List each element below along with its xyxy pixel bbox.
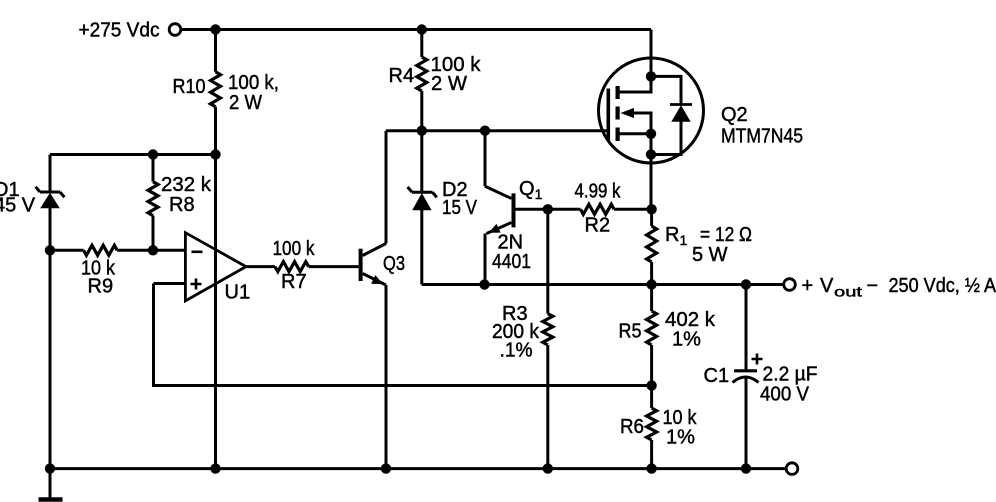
node: Q2 source internal upper	[646, 129, 656, 139]
svg-text:4401: 4401	[492, 251, 531, 273]
svg-text:C1: C1	[704, 365, 730, 387]
svg-text:45 V: 45 V	[0, 195, 36, 217]
svg-text:+275 Vdc: +275 Vdc	[79, 20, 160, 42]
node: R5 / R6 / feedback junction	[646, 380, 656, 390]
svg-text:out: out	[834, 284, 862, 300]
wire: Q2 drain lead	[650, 30, 653, 93]
wire: long vertical from R10 node down to ground rail	[214, 155, 217, 469]
svg-text:U1: U1	[225, 281, 251, 303]
MOSFET Q2 body connection with arrow	[621, 108, 652, 155]
resistor R6	[647, 386, 657, 469]
op-amp U1 minus sign	[192, 251, 203, 254]
svg-text:10 k: 10 k	[663, 407, 698, 429]
ground symbol	[39, 469, 63, 500]
wire: op-amp output to R7	[246, 265, 275, 268]
svg-text:.1%: .1%	[500, 339, 533, 361]
resistor R8	[148, 155, 158, 251]
wire: Q3 collector up to gate line	[385, 131, 388, 244]
node: R4 bottom / D2 junction	[417, 126, 427, 136]
node: R2 / R1 junction	[646, 204, 656, 214]
svg-text:5 W: 5 W	[692, 244, 728, 266]
svg-text:+: +	[802, 275, 814, 297]
resistor R9	[50, 245, 185, 255]
wire: D1 anode down to ground	[49, 250, 52, 469]
svg-text:−: −	[867, 275, 879, 297]
wire: output line from D2 to output terminal	[422, 283, 784, 286]
node: D1 / R9 junction	[45, 245, 55, 255]
svg-text:1%: 1%	[672, 329, 701, 351]
resistor R10	[211, 30, 221, 155]
node: rail / R4 junction	[417, 24, 427, 34]
MOSFET Q2 channel segment top	[616, 86, 620, 99]
svg-text:Q2: Q2	[721, 104, 748, 126]
node: C1 top junction	[741, 279, 751, 289]
wire: Q1 emitter down to output line	[484, 234, 487, 285]
node: Q2 drain internal	[646, 71, 656, 81]
resistor R1	[647, 209, 657, 284]
svg-text:232 k: 232 k	[161, 174, 212, 196]
node: Q1 base / R2 / R3 junction	[543, 204, 553, 214]
node: R8 top junction	[148, 149, 158, 159]
MOSFET Q2 channel segment bottom	[616, 128, 620, 142]
svg-text:250 Vdc, ½ A: 250 Vdc, ½ A	[889, 275, 996, 297]
wire: Q3 emitter down to ground rail	[385, 285, 388, 469]
node: Q1 emitter / output junction	[479, 279, 489, 289]
svg-text:Q1: Q1	[519, 178, 543, 202]
svg-text:2.2 µF: 2.2 µF	[763, 363, 818, 385]
wire: top +275V rail	[182, 28, 652, 31]
node: Q1 collector junction	[480, 126, 490, 136]
wire: upper-left horizontal (D1 top to R10 line)	[50, 153, 216, 156]
svg-text:100 k,: 100 k,	[228, 72, 279, 94]
node: ground rail / R10 line	[210, 463, 220, 473]
capacitor C1	[733, 285, 759, 469]
wire: bottom ground rail	[50, 467, 786, 470]
svg-text:MTM7N45: MTM7N45	[721, 125, 803, 147]
input terminal +275 Vdc	[169, 24, 181, 36]
svg-text:= 12 Ω: = 12 Ω	[700, 224, 752, 246]
wire: non-inverting input stub	[154, 282, 186, 285]
wire: Q2 source lead	[650, 155, 653, 210]
svg-text:R5: R5	[619, 321, 642, 343]
zener diode D1	[36, 155, 65, 251]
resistor R4	[417, 30, 427, 131]
wire: Q1 collector up to gate line	[484, 131, 487, 187]
node: Q2 source internal lower	[646, 149, 656, 159]
svg-text:R1: R1	[665, 224, 687, 248]
resistor R7	[275, 262, 359, 272]
node: ground rail / R3	[543, 463, 553, 473]
svg-text:R10: R10	[173, 76, 206, 98]
node: R10 bottom junction	[210, 149, 220, 159]
svg-text:Q3: Q3	[383, 253, 405, 275]
op-amp U1 plus sign	[191, 279, 202, 290]
label C1 polarity plus	[752, 354, 763, 365]
wire: Q1 base to R2	[516, 208, 548, 211]
svg-text:R4: R4	[389, 65, 415, 87]
svg-text:R8: R8	[169, 194, 195, 216]
svg-text:R7: R7	[281, 271, 307, 293]
MOSFET Q2 channel segment middle	[616, 107, 620, 120]
node: ground rail / C1	[741, 463, 751, 473]
svg-text:R2: R2	[585, 215, 611, 237]
svg-text:1%: 1%	[666, 427, 695, 449]
MOSFET Q2 source internal connection	[620, 132, 652, 135]
node: R8 bottom / inverting input junction	[148, 245, 158, 255]
svg-text:2 W: 2 W	[431, 73, 467, 95]
wire: feedback line down and right to R5/R6 junction	[154, 284, 652, 386]
svg-text:R9: R9	[88, 275, 114, 297]
resistor R5	[647, 285, 657, 386]
node: ground rail / D1 line	[45, 463, 55, 473]
zener diode D2	[408, 131, 437, 285]
svg-text:15 V: 15 V	[442, 197, 478, 219]
node: ground rail / Q3 emitter	[381, 463, 391, 473]
node: R1 bottom / R5 top junction	[646, 279, 656, 289]
op-amp U1	[185, 233, 246, 301]
svg-text:100 k: 100 k	[273, 238, 316, 260]
wire: gate line from Q3 collector to Q2 gate	[386, 129, 607, 132]
svg-text:2 W: 2 W	[229, 92, 262, 114]
MOSFET Q2 gate bar	[607, 89, 611, 142]
svg-text:4.99 k: 4.99 k	[575, 181, 622, 203]
node: ground rail / R6	[646, 463, 656, 473]
output terminal Vout	[784, 279, 796, 291]
resistor R3	[543, 209, 553, 468]
MOSFET Q2 circle	[599, 58, 704, 163]
svg-text:R6: R6	[620, 416, 644, 438]
node: rail / R10 junction	[210, 24, 220, 34]
transistor Q1	[485, 186, 516, 233]
resistor R2	[548, 204, 652, 214]
MOSFET Q2 body diode	[651, 76, 692, 154]
svg-text:400 V: 400 V	[760, 383, 810, 405]
svg-text:V: V	[820, 275, 834, 297]
MOSFET Q2 drain internal connection	[620, 76, 652, 92]
ground return terminal	[786, 463, 798, 475]
transistor Q3	[359, 244, 386, 286]
